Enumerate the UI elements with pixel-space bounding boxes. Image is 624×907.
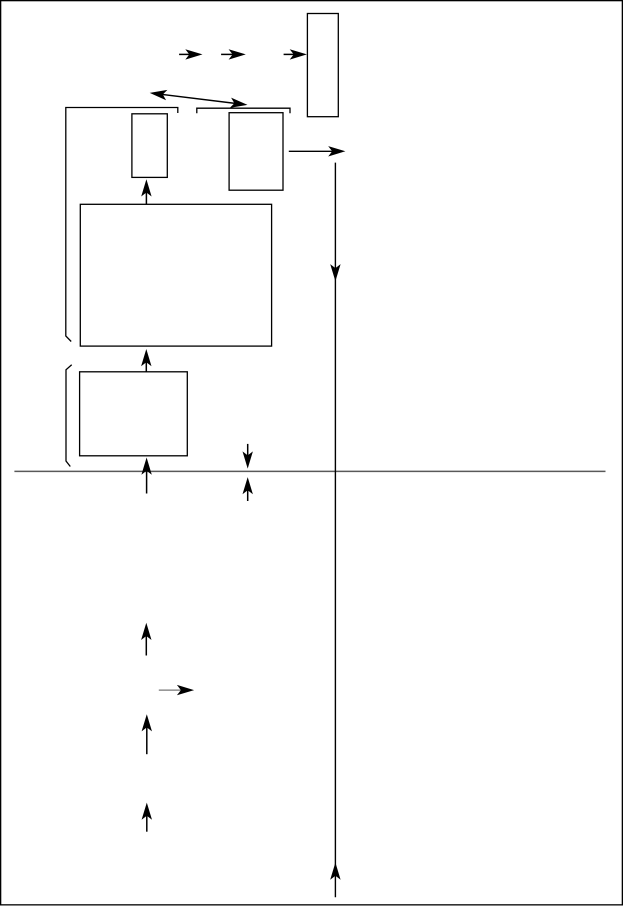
gray horizontal baseline xyxy=(14,470,605,472)
arrow A2 (top, right-pointing) xyxy=(221,49,246,59)
arrow A9 (small down arrow onto baseline) xyxy=(243,444,253,469)
arrow A11 (up, lower-left column) xyxy=(141,623,151,656)
arrow A3 (top, right-pointing into B1) xyxy=(284,49,307,59)
bracket BR1 (left tall bracket around B2/B4) xyxy=(66,108,178,342)
arrow A14 (up, lower-left column) xyxy=(142,803,152,832)
arrow A12 (short right arrow, lower-left) xyxy=(159,685,194,695)
box B3 (middle, right of B2) xyxy=(229,113,283,191)
box B1 (tall, top right) xyxy=(307,14,338,117)
wire: long vertical line xyxy=(334,163,336,898)
arrow A4 (double-headed, slanted) xyxy=(149,88,248,110)
box B4 (large central) xyxy=(80,204,271,346)
bracket BR3 (left bracket around B5) xyxy=(66,365,72,467)
box B5 (small, lower left) xyxy=(80,372,188,456)
arrow A8 (up, crossing baseline into B5 bottom) xyxy=(141,458,151,494)
arrow A7 (up, B5 top to B4 bottom) xyxy=(141,349,151,372)
arrowhead down on long vertical line xyxy=(330,264,340,281)
bracket BR2 (horizontal bracket above B3) xyxy=(197,108,290,113)
box B2 (small, upper left) xyxy=(132,114,167,178)
arrow A10 (small up arrow under baseline) xyxy=(243,477,253,501)
arrow A6 (up, B4 top to B2 bottom) xyxy=(141,179,151,204)
arrow A5 (from B3 right edge, right-pointing) xyxy=(289,146,346,156)
arrow A13 (up, lower-left column) xyxy=(142,714,152,754)
arrow A1 (top, right-pointing) xyxy=(179,49,202,59)
arrowhead up on long vertical line xyxy=(330,863,340,880)
